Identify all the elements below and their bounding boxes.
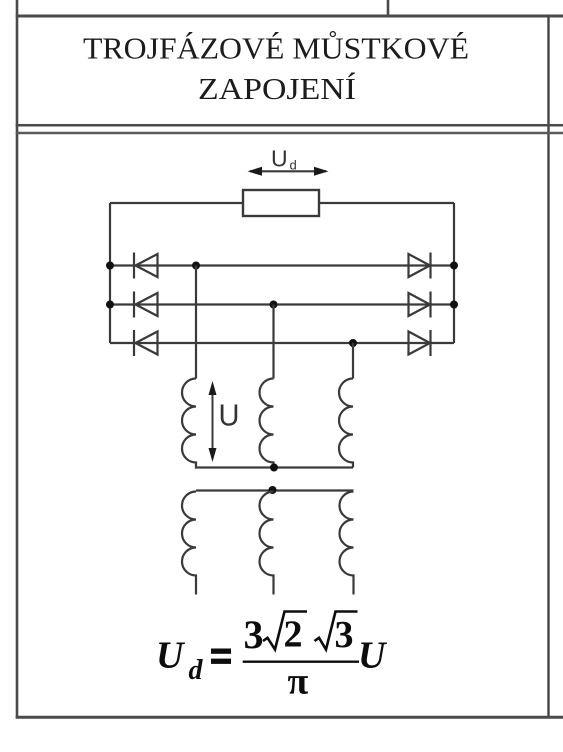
svg-text:π: π [288, 661, 309, 703]
diode D3 (row 3 left, pointing left) [134, 330, 158, 356]
resistor R (load) [243, 190, 319, 216]
svg-text:3: 3 [244, 612, 264, 657]
label U_d [271, 146, 297, 173]
diode D2 (row 2 left, pointing left) [134, 292, 158, 318]
node dot right bus row 1 [450, 262, 458, 270]
diode D4 (row 1 right, pointing right) [409, 253, 431, 279]
formula Ud = 3*sqrt(2)*sqrt(3)/pi * U [156, 612, 388, 703]
wire: phase 1 drop [195, 266, 197, 379]
fraction bar [243, 661, 359, 663]
wire: phase 3 drop [352, 343, 354, 379]
wire: phase row 1 horizontal [110, 264, 454, 266]
wire: primary top bus [196, 489, 354, 491]
diode D6 (row 3 right, pointing right) [409, 330, 431, 356]
node dot phase 2 tap [270, 301, 278, 309]
node dot left bus row 1 [106, 262, 114, 270]
wire: secondary star bus [195, 466, 353, 468]
table border: left vertical line [16, 0, 19, 719]
wire: top dc bus from left vertical to resistor and resistor to right vertical [110, 202, 454, 204]
inductor L5 primary winding phase 2 [260, 492, 274, 595]
inductor L4 primary winding phase 1 [182, 492, 196, 595]
inductor L6 primary winding phase 3 [340, 492, 354, 595]
svg-text:U: U [271, 146, 288, 172]
svg-text:TROJFÁZOVÉ MŮSTKOVÉ: TROJFÁZOVÉ MŮSTKOVÉ [83, 29, 469, 66]
wire: phase row 2 horizontal [110, 303, 454, 305]
svg-text:3: 3 [335, 614, 354, 656]
inductor L3 secondary winding phase 3 [339, 379, 353, 468]
equals sign [211, 649, 231, 664]
node dot right bus row 2 [450, 301, 458, 309]
wire: phase 2 drop [272, 305, 274, 379]
svg-text:ZAPOJENÍ: ZAPOJENÍ [198, 71, 356, 106]
diode D5 (row 2 right, pointing right) [409, 292, 431, 318]
wire: phase row 3 horizontal [110, 342, 454, 344]
diode D1 (row 1 left, pointing left) [134, 253, 158, 279]
svg-text:d: d [189, 655, 204, 686]
node dot phase 1 tap [192, 262, 200, 270]
svg-text:U: U [219, 398, 240, 433]
inductor L1 secondary winding phase 1 [182, 379, 196, 468]
label U (secondary voltage) [219, 398, 240, 433]
arrow U (vertical double-headed beside L1) [209, 381, 217, 462]
svg-text:2: 2 [284, 614, 303, 656]
table border: top horizontal line [16, 15, 563, 18]
title text TROJFÁZOVÉ MŮSTKOVÉ ZAPOJENÍ [83, 29, 469, 107]
table border: right vertical line [547, 15, 549, 719]
radical sign over 3 [315, 612, 358, 650]
wire: right vertical bus [453, 203, 455, 343]
arrow for U_d (double-headed horizontal) [248, 167, 329, 176]
inductor L2 secondary winding phase 2 [260, 379, 274, 468]
wire: left vertical bus [109, 203, 111, 343]
node dot phase 3 tap [349, 339, 357, 347]
node dot primary star point [269, 486, 277, 494]
node dot left bus row 2 [106, 301, 114, 309]
node dot secondary star point [270, 464, 278, 472]
table border: column divider stub above top line [387, 0, 390, 16]
table border: double separator line lower [16, 132, 563, 135]
table border: bottom horizontal line [16, 716, 563, 719]
table border: double separator line upper [16, 124, 563, 127]
svg-text:U: U [358, 635, 388, 677]
svg-text:U: U [156, 635, 186, 677]
radical sign over 2 [263, 612, 307, 650]
